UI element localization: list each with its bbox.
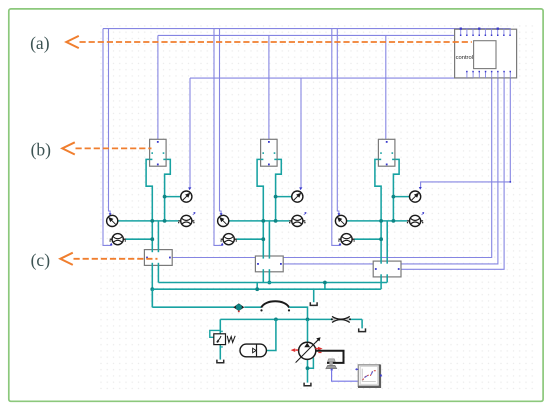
flow meter S2 right [289, 215, 306, 226]
cylinder block R3 [373, 261, 401, 277]
pipe S1 lower right drop [157, 221, 159, 252]
stub S2 right flow-meter probe [304, 213, 306, 215]
pump drain to tank [307, 359, 309, 382]
pipe S3 cross line gauge-flowmeter row [346, 220, 407, 222]
scope output pin [380, 375, 382, 377]
pressure gauge S3 left [335, 215, 346, 226]
wire cylinder R3 position feedback [401, 78, 504, 269]
svg-text:control: control [456, 55, 473, 61]
wire S3 right pressure-gauge signal (from controller bottom) [421, 78, 511, 188]
pipe S2 valve left port elbow [257, 159, 263, 258]
wire valve V3 command (vertical) [385, 35, 387, 139]
pipe S3 valve left port elbow [375, 159, 381, 263]
pipe S2 left drop [262, 269, 264, 282]
pipe S1 link to left flow meter [126, 238, 153, 240]
pipe S2 lower right drop [268, 221, 270, 259]
return bus line2 [152, 288, 381, 290]
wire top bus H1 (sensor signals to controller) [103, 28, 511, 30]
svg-text:(c): (c) [31, 250, 51, 270]
pipe to pump inlet [307, 319, 309, 342]
wire S1 flow-meter signal (vertical) [103, 29, 111, 246]
directional valve V2 [261, 139, 278, 166]
flow meter S1 left [109, 234, 126, 245]
junction dots S3 [392, 195, 396, 199]
supply bus line1 [158, 282, 387, 284]
pipe S2 valve right port elbow [276, 159, 282, 221]
pipe S1 cross line gauge-flowmeter row [118, 220, 179, 222]
tank T4 [304, 383, 311, 386]
rotary load M1 [326, 359, 337, 369]
accumulator riser pipe [266, 319, 276, 350]
throttle restrictor on line4 [331, 316, 351, 322]
scope input pin [355, 368, 358, 370]
directional valve V3 [378, 139, 395, 166]
wire valve V1 command (vertical) [157, 35, 159, 139]
tank branch from return bus [313, 289, 315, 302]
cylinder block R1 [144, 250, 172, 266]
pipe S3 valve right port elbow [393, 159, 399, 221]
pipe hose to corner [289, 307, 307, 319]
pipe after check valve [244, 306, 261, 308]
wire S3 flow-meter signal (vertical) [332, 29, 340, 246]
wire S2 left pressure-gauge signal (vertical) [220, 29, 222, 215]
sketch grid dots [98, 22, 535, 391]
accumulator A1 [240, 344, 266, 357]
pump shaft to load [316, 351, 344, 363]
flow meter S3 left [338, 234, 355, 245]
flexible hose arc [261, 301, 289, 307]
wire S3 left pressure-gauge signal (vertical) [337, 29, 339, 215]
pipe S1 right drop to supply bus [157, 263, 159, 283]
pipe S2 link to right gauge [276, 196, 292, 198]
tank T2 [359, 328, 366, 331]
bus connector at x257 [256, 283, 258, 290]
flow meter S2 left [220, 234, 237, 245]
pressure gauge S2 right [292, 191, 303, 202]
wire cylinder R1 position feedback [172, 78, 491, 258]
pressure gauge S1 left [107, 215, 118, 226]
junction dot S2 on supply bus [268, 281, 272, 285]
controller bottom pins [466, 71, 511, 78]
wire bus H3 (pressure sensor returns) [190, 77, 473, 79]
pipe S1 valve left port elbow [146, 159, 152, 252]
junction dots S2 [274, 195, 278, 199]
pipe S1 valve right port elbow [165, 159, 171, 221]
relief valve spring label W [227, 336, 235, 343]
pipe line4 left end down to relief valve [219, 319, 221, 333]
controller top pins [460, 28, 511, 37]
pipe S1 left drop to return bus [151, 263, 153, 307]
pressure gauge S3 right [410, 191, 421, 202]
arrow (b) dashed leader [76, 147, 152, 149]
pressure gauge S2 left [218, 215, 229, 226]
flow meter S3 right [407, 215, 424, 226]
flow meter S1 right [178, 215, 195, 226]
tank T1 [310, 302, 317, 305]
arrow (a) dashed leader [80, 41, 472, 43]
cylinder block R2 [255, 256, 283, 272]
pump delivery line3 [152, 306, 234, 308]
svg-text:(a): (a) [30, 33, 50, 53]
wire cylinder R2 position feedback [284, 78, 498, 264]
stub S1 right flow-meter probe [193, 213, 195, 215]
pump case drain loop [308, 358, 314, 369]
stub S3 right flow-meter probe [422, 213, 424, 215]
bus connector at x325 [324, 283, 326, 290]
variable displacement pump P1 [296, 337, 321, 362]
pipe S2 link to left flow meter [237, 238, 264, 240]
controller block U1 [455, 29, 517, 78]
pump port arrows (red) [291, 348, 296, 352]
pipe S1 return down-run to pump line [151, 289, 153, 307]
arrow (c) head [60, 253, 73, 265]
pressure gauge S1 right [181, 191, 192, 202]
relief valve pilot loop [210, 330, 221, 337]
pipe S1 link to right gauge [165, 196, 181, 198]
wire valve V2 command (vertical) [268, 35, 270, 139]
arrow (c) dashed leader [74, 258, 158, 260]
pipe S3 right drop [386, 274, 388, 282]
pipe S3 link to right gauge [393, 196, 409, 198]
wire S2 flow-meter signal (vertical) [214, 29, 222, 246]
pipe S2 right drop [268, 269, 270, 282]
main pressure line4 [220, 318, 362, 320]
line4 right end to tank [361, 319, 363, 328]
wire S1 left pressure-gauge signal (vertical) [109, 29, 111, 215]
pipe S3 left drop [380, 274, 382, 289]
junction dot S1 on return bus [150, 287, 154, 291]
pipe S2 cross line gauge-flowmeter row [229, 220, 290, 222]
relief valve drain to tank [219, 345, 221, 360]
junction dots S1 [163, 195, 167, 199]
pipe S3 lower right drop [386, 221, 388, 264]
check valve [233, 303, 244, 312]
wire load speed signal to scope [331, 369, 333, 371]
svg-text:(b): (b) [31, 139, 52, 159]
wire top bus H2 (valve commands) [158, 34, 510, 36]
pipe S3 link to left flow meter [354, 238, 381, 240]
scope / plot block [358, 365, 380, 387]
directional valve V1 [150, 139, 167, 166]
arrow (b) head [62, 142, 75, 154]
arrow (a) head [66, 36, 79, 48]
wire S1 right pressure-gauge signal [189, 78, 191, 189]
relief valve W1 [214, 334, 226, 345]
tank T3 [217, 360, 224, 363]
wire S2 right pressure-gauge signal [300, 78, 302, 189]
